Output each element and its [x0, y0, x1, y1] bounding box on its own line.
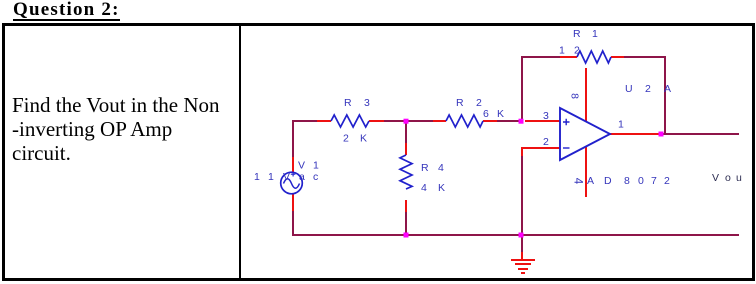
svg-text:1: 1: [592, 28, 598, 40]
svg-text:2: 2: [664, 175, 670, 187]
svg-text:R: R: [456, 97, 464, 109]
svg-text:o: o: [725, 172, 731, 184]
resistor R2: [446, 115, 483, 127]
svg-text:R: R: [344, 97, 352, 109]
svg-text:1: 1: [618, 119, 624, 131]
svg-text:6: 6: [483, 108, 489, 120]
svg-text:4: 4: [438, 162, 444, 174]
svg-text:2: 2: [574, 45, 580, 57]
node Vout label: [712, 172, 742, 184]
svg-text:U: U: [625, 83, 633, 95]
wire R3 to R2 through node: [384, 120, 433, 122]
op-amp minus marker: [563, 147, 570, 149]
svg-text:R: R: [421, 162, 429, 174]
ground: [511, 252, 535, 273]
svg-text:2: 2: [476, 97, 482, 109]
pin U1 power pin8: [585, 68, 587, 121]
wire V1 bottom: [292, 211, 294, 235]
pin U1 power pin4: [585, 146, 587, 197]
svg-text:8: 8: [624, 175, 630, 187]
wire bottom rail: [292, 234, 739, 236]
pin stub R1 left: [560, 56, 577, 58]
svg-text:7: 7: [651, 175, 657, 187]
pin stub U1 output pin1: [610, 133, 661, 135]
pin stub U1 pin2: [521, 148, 560, 156]
svg-text:3: 3: [543, 110, 549, 122]
svg-text:A: A: [664, 83, 671, 95]
svg-text:0: 0: [638, 175, 644, 187]
svg-text:K: K: [497, 108, 504, 120]
junction node R4/rail: [404, 233, 409, 238]
op-amp plus marker: [563, 119, 570, 125]
junction node output: [659, 132, 664, 137]
svg-text:K: K: [438, 182, 445, 194]
svg-text:4: 4: [572, 178, 584, 185]
svg-text:K: K: [360, 133, 367, 145]
svg-text:V: V: [283, 171, 290, 183]
wire R2 to node B: [497, 120, 522, 122]
wire R4 top: [405, 121, 407, 143]
pin stub R3 right: [369, 120, 384, 122]
svg-text:1: 1: [313, 160, 319, 172]
source V1 sine: [284, 179, 300, 189]
wire pin2 to ground rail: [521, 156, 523, 235]
junction node feedback/pin3: [519, 119, 524, 124]
pin stub U1 pin3: [525, 120, 560, 122]
resistor R1: [577, 51, 611, 63]
svg-text:R: R: [573, 28, 581, 40]
wire ground stem: [521, 235, 523, 252]
pin stub V1 top: [292, 157, 294, 173]
svg-text:1: 1: [559, 45, 565, 57]
svg-text:3: 3: [364, 97, 370, 109]
svg-text:V: V: [298, 160, 305, 172]
pin stub R4 top: [405, 143, 407, 155]
pin stub R1 right: [611, 56, 624, 58]
junction node ground/rail: [519, 233, 524, 238]
wire feedback left: [522, 57, 560, 121]
svg-text:V: V: [712, 172, 719, 184]
pin stub R3 left: [317, 120, 331, 122]
pin stub R2 right: [483, 120, 497, 122]
svg-text:1: 1: [268, 171, 274, 183]
svg-text:c: c: [313, 171, 318, 183]
svg-text:2: 2: [645, 83, 651, 95]
wire R4 bottom: [405, 212, 407, 235]
svg-text:4: 4: [421, 182, 427, 194]
svg-text:2: 2: [543, 136, 549, 148]
svg-text:1: 1: [254, 171, 260, 183]
wire feedback right: [624, 57, 665, 134]
junction node R3/R4: [404, 119, 409, 124]
pin stub R4 bottom: [405, 200, 407, 212]
svg-text:D: D: [604, 175, 612, 187]
source V1 plus terminal: [291, 172, 296, 177]
svg-text:u: u: [736, 172, 742, 184]
source V1 circle: [281, 172, 303, 194]
pin stub V1 bottom: [292, 194, 294, 211]
resistor R3: [331, 115, 369, 127]
svg-text:8: 8: [569, 93, 581, 99]
op-amp U2A triangle: [560, 108, 610, 160]
svg-text:a: a: [299, 171, 305, 183]
wire output: [661, 133, 739, 135]
svg-text:2: 2: [343, 133, 349, 145]
wire V1 top to R3: [293, 121, 317, 157]
svg-text:A: A: [587, 175, 594, 187]
resistor R4: [400, 155, 412, 189]
pin stub R2 left: [433, 120, 446, 122]
